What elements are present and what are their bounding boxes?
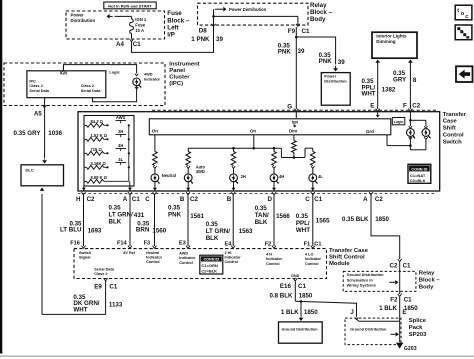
svg-text:Transfer: Transfer [443, 112, 467, 118]
svg-text:0.35 BLK: 0.35 BLK [342, 216, 369, 223]
svg-text:Control: Control [443, 133, 464, 139]
box Ground Distribution [279, 322, 323, 343]
svg-text:Signal: Signal [79, 256, 90, 260]
svg-text:D8: D8 [199, 27, 207, 34]
svg-text:1 BLK: 1 BLK [281, 309, 299, 316]
lamp Auto 4WD [187, 166, 190, 168]
svg-text:Ground Distribution: Ground Distribution [282, 327, 319, 331]
svg-text:Grd: Grd [366, 129, 374, 134]
svg-text:E9: E9 [94, 283, 102, 290]
svg-text:Body: Body [419, 284, 434, 290]
resistor Auto 4WD branch [187, 148, 189, 151]
svg-text:GRY: GRY [393, 76, 407, 83]
svg-text:Control: Control [266, 262, 280, 266]
wire B to E4 [231, 192, 235, 195]
svg-text:A: A [363, 196, 368, 203]
wire B C2 to E3 [186, 192, 190, 195]
wire J into splice [355, 318, 358, 320]
right bus of resistor network [128, 125, 130, 181]
wire indicator return [135, 87, 138, 89]
svg-text:4 LO: 4 LO [305, 253, 313, 257]
svg-text:1 PNK: 1 PNK [191, 36, 210, 43]
rail On feed [188, 147, 281, 149]
dashed connector line above switch [152, 109, 437, 111]
svg-text:Relay: Relay [310, 2, 327, 9]
svg-text:Cluster: Cluster [169, 75, 190, 81]
svg-text:1133: 1133 [109, 302, 123, 309]
dashed connector line below switch [78, 192, 437, 194]
wire E16 C1 ground [293, 278, 297, 281]
svg-text:PPL/: PPL/ [296, 220, 310, 227]
resistor 4L branch [312, 148, 314, 151]
svg-text:Transfer Case: Transfer Case [329, 248, 369, 254]
svg-text:Control: Control [146, 260, 160, 264]
svg-text:Control: Control [225, 260, 239, 264]
wire to DLC [42, 313, 106, 315]
svg-text:C2: C2 [87, 196, 95, 203]
icon button toc [455, 5, 472, 20]
svg-text:Interior Lights: Interior Lights [376, 34, 407, 39]
stub A [129, 186, 131, 191]
lamp wire arrowheads at box bottom [82, 188, 86, 191]
svg-text:B: B [180, 196, 185, 203]
svg-text:0.35: 0.35 [255, 205, 268, 212]
svg-text:Indicator: Indicator [225, 256, 242, 260]
resistor network box [84, 116, 134, 187]
svg-text:1850: 1850 [375, 216, 389, 223]
svg-text:Neutral: Neutral [162, 173, 176, 178]
svg-text:B: B [227, 196, 232, 203]
wire PNK 39 to switch pin G [295, 27, 297, 109]
connector F9 C1 [296, 24, 300, 27]
svg-text:Fuse: Fuse [135, 22, 145, 27]
wire F (GRY 8) [408, 60, 413, 63]
wire A C2 ground 0.35 BLK 1850 [369, 192, 373, 195]
arrow to splice wire [396, 332, 399, 336]
wire to splice J [295, 301, 356, 317]
svg-text:Neutral: Neutral [146, 251, 159, 255]
wires dim lamps to Grd [409, 137, 412, 139]
svg-text:Power Distribution: Power Distribution [229, 7, 267, 12]
svg-text:PNK: PNK [168, 211, 182, 218]
switch contact strip box [149, 119, 390, 135]
svg-text:Ign: Ign [292, 119, 299, 124]
dashed box relay block body (ground distribution ref) [343, 271, 416, 291]
svg-text:Splice: Splice [409, 318, 427, 324]
svg-text:Relay: Relay [419, 270, 435, 276]
svg-text:Dimming: Dimming [376, 39, 396, 44]
svg-text:WHT: WHT [296, 227, 310, 234]
svg-text:Indicator: Indicator [146, 256, 163, 260]
svg-text:Switch: Switch [443, 139, 462, 145]
svg-text:1850: 1850 [304, 309, 318, 316]
svg-text:AWD: AWD [116, 115, 126, 120]
svg-text:9.09 K Ω: 9.09 K Ω [91, 175, 108, 180]
svg-text:Block –: Block – [167, 17, 190, 24]
svg-text:CONN ID: CONN ID [204, 258, 220, 262]
svg-text:3.16K Ω: 3.16K Ω [91, 161, 107, 166]
svg-text:Serial Data: Serial Data [94, 268, 115, 272]
svg-text:C1: C1 [109, 283, 117, 290]
svg-text:4L: 4L [118, 157, 123, 162]
arrow to power distribution (left) [107, 14, 110, 19]
svg-text:IGN: IGN [60, 70, 67, 75]
svg-text:Logic: Logic [394, 120, 404, 124]
wire Dim branch [293, 135, 295, 141]
lamp 4L [311, 166, 314, 168]
left page edge bar [0, 0, 2, 354]
svg-text:1560: 1560 [152, 227, 166, 234]
svg-text:IGN 1: IGN 1 [135, 17, 147, 22]
svg-text:Module: Module [329, 261, 350, 267]
svg-text:39: 39 [298, 48, 305, 55]
lamp Neutral [153, 166, 156, 168]
svg-text:4WD: 4WD [196, 169, 205, 174]
svg-text:39: 39 [338, 59, 345, 66]
svg-text:E: E [402, 309, 406, 316]
icon button back arrow [456, 66, 473, 82]
svg-text:E4: E4 [225, 241, 233, 247]
label Hot in RUN and START [104, 2, 156, 9]
IPC logic box [27, 71, 106, 98]
dashed box Instrument Panel Cluster [4, 63, 165, 106]
svg-text:C2: C2 [190, 196, 198, 203]
svg-text:WHT: WHT [362, 91, 376, 98]
svg-text:C2: C2 [375, 196, 383, 203]
conn id box switch [408, 164, 431, 183]
dim lamp 1 [409, 126, 412, 128]
svg-text:Shift Control: Shift Control [329, 255, 365, 261]
lamp 4H [272, 166, 275, 168]
svg-text:Ground Distribution: Ground Distribution [347, 272, 385, 277]
svg-text:Block –: Block – [310, 9, 333, 16]
svg-text:LT GRN/: LT GRN/ [206, 228, 231, 235]
wire H C2 to F16 [82, 192, 86, 195]
svg-text:On: On [250, 128, 256, 133]
svg-text:WHT: WHT [73, 306, 87, 313]
svg-text:PNK: PNK [319, 58, 333, 65]
wire F to dim lamps [409, 112, 411, 127]
svg-text:LT GRN/: LT GRN/ [109, 212, 134, 219]
svg-text:D: D [268, 196, 273, 203]
svg-text:Power: Power [71, 13, 84, 18]
dashed box Power Distribution (relay block body) [198, 3, 309, 25]
svg-text:F: F [403, 103, 407, 110]
svg-text:Control: Control [179, 261, 193, 265]
svg-text:8V Ref: 8V Ref [123, 251, 136, 255]
svg-text:SP203: SP203 [409, 332, 427, 338]
svg-text:Indicator: Indicator [266, 257, 283, 261]
svg-text:E3: E3 [179, 240, 186, 246]
fuse IGN 1 10A [131, 16, 133, 19]
svg-text:E: E [370, 103, 374, 110]
svg-text:2H: 2H [241, 174, 246, 179]
svg-text:C1: C1 [404, 296, 412, 303]
svg-text:Logic: Logic [109, 70, 120, 75]
dashed box Transfer Case Shift Control Module [74, 249, 327, 279]
svg-text:C1: C1 [133, 41, 141, 48]
connector A4 C1 [130, 39, 134, 42]
svg-text:c: c [465, 14, 468, 20]
svg-text:8: 8 [413, 77, 417, 84]
svg-text:Instrument: Instrument [169, 61, 199, 67]
svg-text:F1: F1 [304, 241, 311, 247]
resistor 4H branch [273, 148, 275, 151]
svg-text:E16: E16 [280, 283, 292, 290]
wire E into strip [377, 112, 379, 114]
ground G203 [396, 343, 404, 349]
svg-text:GND: GND [291, 274, 300, 278]
svg-text:Class 2: Class 2 [81, 84, 94, 88]
svg-text:Ground Distribution: Ground Distribution [350, 327, 387, 331]
svg-text:BLK: BLK [255, 219, 268, 226]
box DLC [21, 165, 64, 186]
connector D8 [212, 24, 216, 27]
resistor Dim branch [292, 141, 297, 153]
svg-text:0.35: 0.35 [206, 221, 219, 228]
wire internal power distribution [213, 9, 215, 25]
dashed box Power Distribution (fuse block left I/P) [66, 11, 165, 39]
resistor Neutral branch [153, 152, 158, 166]
svg-text:Serial Data: Serial Data [29, 89, 50, 93]
svg-text:F16: F16 [70, 240, 80, 246]
svg-text:Dim: Dim [289, 128, 297, 133]
wire branch to ground distribution [300, 301, 302, 316]
svg-text:Body: Body [310, 16, 326, 23]
arrow to wire [395, 280, 398, 284]
svg-text:0.35: 0.35 [296, 213, 309, 220]
wire C C1 to F1 [311, 192, 315, 195]
svg-text:0.8 BLK: 0.8 BLK [269, 292, 293, 299]
svg-text:Panel: Panel [169, 68, 185, 74]
svg-text:C: C [145, 196, 150, 203]
svg-text:Distribution: Distribution [324, 79, 347, 84]
svg-text:A4: A4 [116, 41, 124, 48]
svg-text:1693: 1693 [88, 227, 102, 234]
lamp 2H [232, 166, 235, 168]
svg-text:Indicator: Indicator [305, 257, 322, 261]
svg-text:F3: F3 [144, 240, 151, 246]
svg-text:C2=BLK: C2=BLK [410, 178, 426, 183]
svg-text:G203: G203 [404, 346, 417, 352]
svg-text:4H: 4H [279, 174, 284, 179]
box Transfer Case Shift Control Switch [78, 112, 440, 191]
svg-text:LT BLU: LT BLU [60, 227, 82, 234]
dashed box splice pack ground distribution [345, 318, 401, 345]
wire A C1 to F14 [128, 192, 132, 195]
svg-text:G: G [287, 103, 292, 110]
wire E (PPL/WHT 1382) [375, 60, 380, 63]
svg-text:4L: 4L [318, 174, 323, 179]
svg-text:C1=ORN: C1=ORN [201, 263, 217, 268]
svg-text:C1: C1 [403, 262, 411, 269]
svg-text:Fuse: Fuse [167, 10, 182, 17]
svg-text:4H: 4H [118, 143, 123, 148]
svg-text:Indicator: Indicator [179, 256, 196, 260]
dim lamp 2 [424, 126, 427, 128]
svg-text:Pack: Pack [409, 325, 423, 331]
svg-text:J: J [350, 309, 354, 316]
svg-text:F2: F2 [390, 296, 398, 303]
svg-text:0.35: 0.35 [109, 205, 122, 212]
4WD indicator lamp [135, 74, 138, 76]
svg-text:C2: C2 [390, 262, 398, 269]
svg-text:0.35 GRY: 0.35 GRY [14, 130, 42, 137]
svg-text:Shift: Shift [443, 126, 456, 132]
svg-text:1 BLK: 1 BLK [379, 305, 397, 312]
svg-text:BRN: BRN [136, 227, 150, 234]
wire fuse output to D8 [132, 25, 214, 52]
svg-text:Distribution: Distribution [71, 18, 96, 23]
svg-text:CONN ID: CONN ID [411, 167, 427, 171]
logic box [392, 118, 405, 125]
svg-text:C1: C1 [132, 196, 140, 203]
svg-text:2H: 2H [118, 129, 123, 134]
bottom page edge line [0, 355, 474, 357]
svg-text:C1: C1 [314, 196, 322, 203]
svg-text:Block –: Block – [419, 277, 441, 283]
svg-text:t: t [457, 8, 459, 14]
svg-text:Control: Control [305, 262, 319, 266]
svg-text:Serial Data: Serial Data [81, 89, 102, 93]
svg-text:4WD: 4WD [144, 73, 153, 77]
wire C to F3 [153, 192, 157, 195]
svg-text:C1: C1 [302, 28, 310, 35]
resistor 2H branch [233, 148, 235, 151]
svg-text:H: H [76, 196, 81, 203]
svg-text:BLK: BLK [206, 235, 219, 242]
connector C2 C1 relay block [398, 259, 402, 262]
wire On-left to Neutral resistor [154, 135, 156, 152]
wire D to F2 [272, 192, 276, 195]
svg-text:C: C [305, 196, 310, 203]
svg-text:C1: C1 [298, 283, 306, 290]
svg-text:PNK: PNK [278, 48, 292, 55]
svg-text:Hot in RUN and START: Hot in RUN and START [108, 3, 152, 8]
connector F2 C1 [398, 294, 402, 297]
svg-text:On: On [152, 129, 158, 134]
svg-text:1561: 1561 [190, 213, 204, 220]
svg-text:Switch: Switch [79, 251, 92, 255]
svg-text:2 HI: 2 HI [225, 251, 232, 255]
svg-text:39: 39 [216, 36, 223, 43]
svg-text:Left: Left [167, 25, 178, 32]
svg-text:F9: F9 [288, 28, 296, 35]
svg-text:1.52 K Ω: 1.52 K Ω [91, 133, 108, 138]
svg-text:F2: F2 [265, 241, 272, 247]
svg-text:DLC: DLC [26, 167, 34, 172]
svg-text:1566: 1566 [276, 213, 290, 220]
svg-text:(IPC): (IPC) [169, 81, 183, 87]
svg-text:Schematics in: Schematics in [347, 277, 374, 282]
box Interior Lights Dimming [372, 32, 417, 58]
svg-text:C2=BLK: C2=BLK [201, 269, 217, 274]
svg-text:Indicator: Indicator [144, 77, 161, 81]
svg-text:A: A [123, 196, 128, 203]
svg-text:IPC: IPC [29, 79, 36, 83]
svg-text:Class 2: Class 2 [29, 84, 42, 88]
svg-text:F14: F14 [117, 240, 128, 246]
svg-text:1565: 1565 [316, 217, 330, 224]
wire G into Ign contact [295, 112, 297, 118]
svg-text:1382: 1382 [382, 86, 396, 93]
wire E9 C1 serial data [104, 278, 108, 281]
svg-text:TAN/: TAN/ [255, 212, 269, 219]
svg-text:1563: 1563 [239, 228, 253, 235]
svg-text:I/P: I/P [167, 32, 175, 39]
svg-text:431: 431 [134, 212, 145, 219]
svg-text:4 H: 4 H [266, 253, 272, 257]
svg-text:Wiring Systems: Wiring Systems [347, 283, 376, 288]
svg-text:Case: Case [443, 119, 458, 125]
wire On-mid stub [253, 135, 255, 148]
wire A5 serial data [44, 98, 46, 159]
wire dim bar [281, 157, 305, 159]
svg-text:BLK: BLK [109, 219, 122, 226]
svg-text:C2: C2 [412, 103, 420, 110]
box Power Distribution [321, 73, 350, 106]
svg-text:1850: 1850 [299, 292, 313, 299]
svg-text:1036: 1036 [48, 130, 62, 137]
wire IGN to 4WD indicator [64, 65, 137, 74]
icon button stairs [455, 25, 472, 40]
svg-text:Class 2: Class 2 [94, 272, 107, 276]
svg-text:C1: C1 [314, 241, 321, 247]
svg-text:AWD: AWD [179, 252, 188, 256]
svg-text:10 A: 10 A [135, 28, 144, 33]
svg-text:A5: A5 [34, 111, 42, 118]
stub H [83, 186, 85, 191]
wire branch to power distribution box [296, 37, 335, 65]
conn id box module [200, 255, 223, 274]
